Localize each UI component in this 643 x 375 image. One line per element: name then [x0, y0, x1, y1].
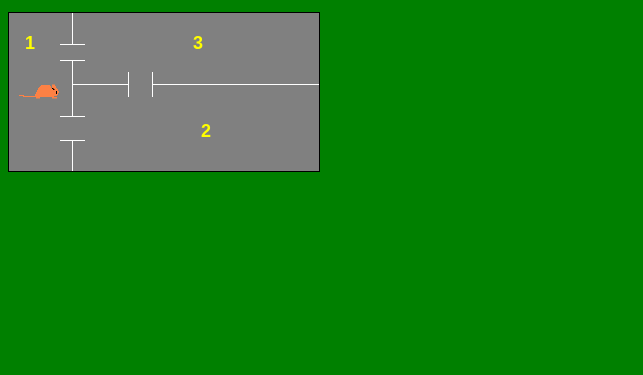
door jamb tick x=128 [128, 72, 129, 97]
wall: horizontal right segment [152, 84, 319, 85]
wall: vertical middle segment [72, 60, 73, 117]
door jamb tick y=60 [60, 60, 85, 61]
wall: vertical top segment [72, 13, 73, 45]
wall: horizontal left segment [72, 84, 129, 85]
mouse eye [52, 88, 53, 89]
mouse body rows [41, 85, 50, 86]
maze panel floor [9, 13, 319, 171]
mouse mouth mark [56, 91, 57, 94]
svg-text:2: 2 [201, 121, 211, 141]
wall: vertical bottom segment [72, 140, 73, 171]
mouse sprite [19, 85, 59, 99]
door jamb tick y=44 [60, 44, 85, 45]
svg-text:1: 1 [25, 33, 35, 53]
mouse tail [19, 95, 24, 96]
door jamb tick y=116 [60, 116, 85, 117]
door jamb tick x=152 [152, 72, 153, 97]
mouse rear foot [52, 97, 57, 98]
maze panel border [8, 12, 320, 172]
door jamb tick y=140 [60, 140, 85, 141]
svg-text:3: 3 [193, 33, 203, 53]
mouse front foot [36, 97, 40, 98]
mouse ear [52, 85, 55, 86]
